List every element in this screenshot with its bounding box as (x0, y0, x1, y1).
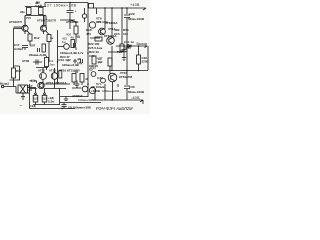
svg-text:R24 47: R24 47 (60, 55, 70, 59)
svg-text:2200: 2200 (142, 60, 149, 64)
svg-text:VVV: VVV (26, 17, 31, 20)
svg-text:С26: С26 (89, 54, 95, 58)
svg-text:VT12: VT12 (38, 69, 45, 73)
svg-text:60мк+100В: 60мк+100В (128, 90, 145, 94)
svg-text:+: + (75, 10, 77, 14)
svg-text:АТ3102Е: АТ3102Е (66, 20, 79, 24)
svg-text:РЭЧ-ФЭЧ АиБЛ2М: РЭЧ-ФЭЧ АиБЛ2М (96, 106, 133, 111)
svg-text:0,33: 0,33 (97, 76, 103, 80)
svg-text:100мк+30В: 100мк+30В (78, 98, 93, 102)
svg-text:2мл: 2мл (50, 63, 56, 67)
svg-text:С31 1н: С31 1н (124, 40, 134, 44)
svg-text:КТ818ГМ: КТ818ГМ (119, 75, 132, 79)
svg-text:100: 100 (27, 88, 32, 92)
svg-text:КТ3102Е: КТ3102Е (96, 20, 108, 24)
svg-text:27 100мк+30В: 27 100мк+30В (47, 3, 77, 7)
svg-text:2,2м: 2,2м (48, 100, 55, 104)
svg-text:Р2К: Р2К (117, 50, 123, 54)
svg-text:60мк+100В: 60мк+100В (128, 17, 145, 21)
svg-text:Х07: Х07 (30, 44, 36, 48)
svg-text:+40В: +40В (130, 3, 140, 7)
svg-text:А10мГ: А10мГ (14, 47, 24, 51)
svg-text:VT13: VT13 (49, 69, 56, 73)
svg-text:0,51: 0,51 (125, 46, 131, 50)
svg-text:R17: R17 (16, 69, 22, 73)
svg-text:Вход1: Вход1 (0, 82, 9, 86)
svg-text:17д: 17д (77, 61, 82, 65)
svg-text:С29: С29 (129, 12, 135, 16)
svg-text:ВУ1: ВУ1 (96, 82, 102, 86)
svg-text:АТ36: АТ36 (22, 59, 30, 63)
svg-text:0,51: 0,51 (33, 97, 38, 100)
svg-text:20мкм+6,3В: 20мкм+6,3В (29, 53, 47, 57)
svg-text:-40В: -40В (131, 96, 140, 100)
svg-text:10к: 10к (123, 32, 128, 36)
svg-text:2Д 100мкм+30В: 2Д 100мкм+30В (68, 105, 92, 109)
svg-text:АТ3107Л: АТ3107Л (9, 20, 22, 24)
svg-text:VT16 КТ8101А: VT16 КТ8101А (46, 81, 67, 85)
svg-text:VT8 КТ3107Л: VT8 КТ3107Л (37, 19, 56, 23)
svg-text:100мк+100В: 100мк+100В (102, 89, 119, 93)
svg-text:С25 0,1мк: С25 0,1мк (88, 46, 103, 50)
svg-text:±2Д: ±2Д (30, 104, 36, 108)
svg-text:1к: 1к (50, 36, 54, 40)
svg-text:3,3к: 3,3к (35, 4, 41, 8)
svg-text:0,33: 0,33 (90, 66, 96, 70)
svg-text:0,51: 0,51 (42, 97, 47, 100)
svg-text:Выход: Выход (137, 42, 149, 46)
svg-text:2А5: 2А5 (114, 32, 120, 36)
svg-text:1м: 1м (62, 40, 66, 44)
svg-text:+100В: +100В (91, 89, 101, 93)
svg-text:С30: С30 (129, 85, 135, 89)
svg-text:R12: R12 (34, 36, 40, 40)
svg-text:48: 48 (71, 36, 75, 40)
svg-text:470: 470 (86, 32, 91, 36)
svg-text:24к: 24к (20, 10, 25, 14)
svg-text:41: 41 (85, 77, 89, 81)
